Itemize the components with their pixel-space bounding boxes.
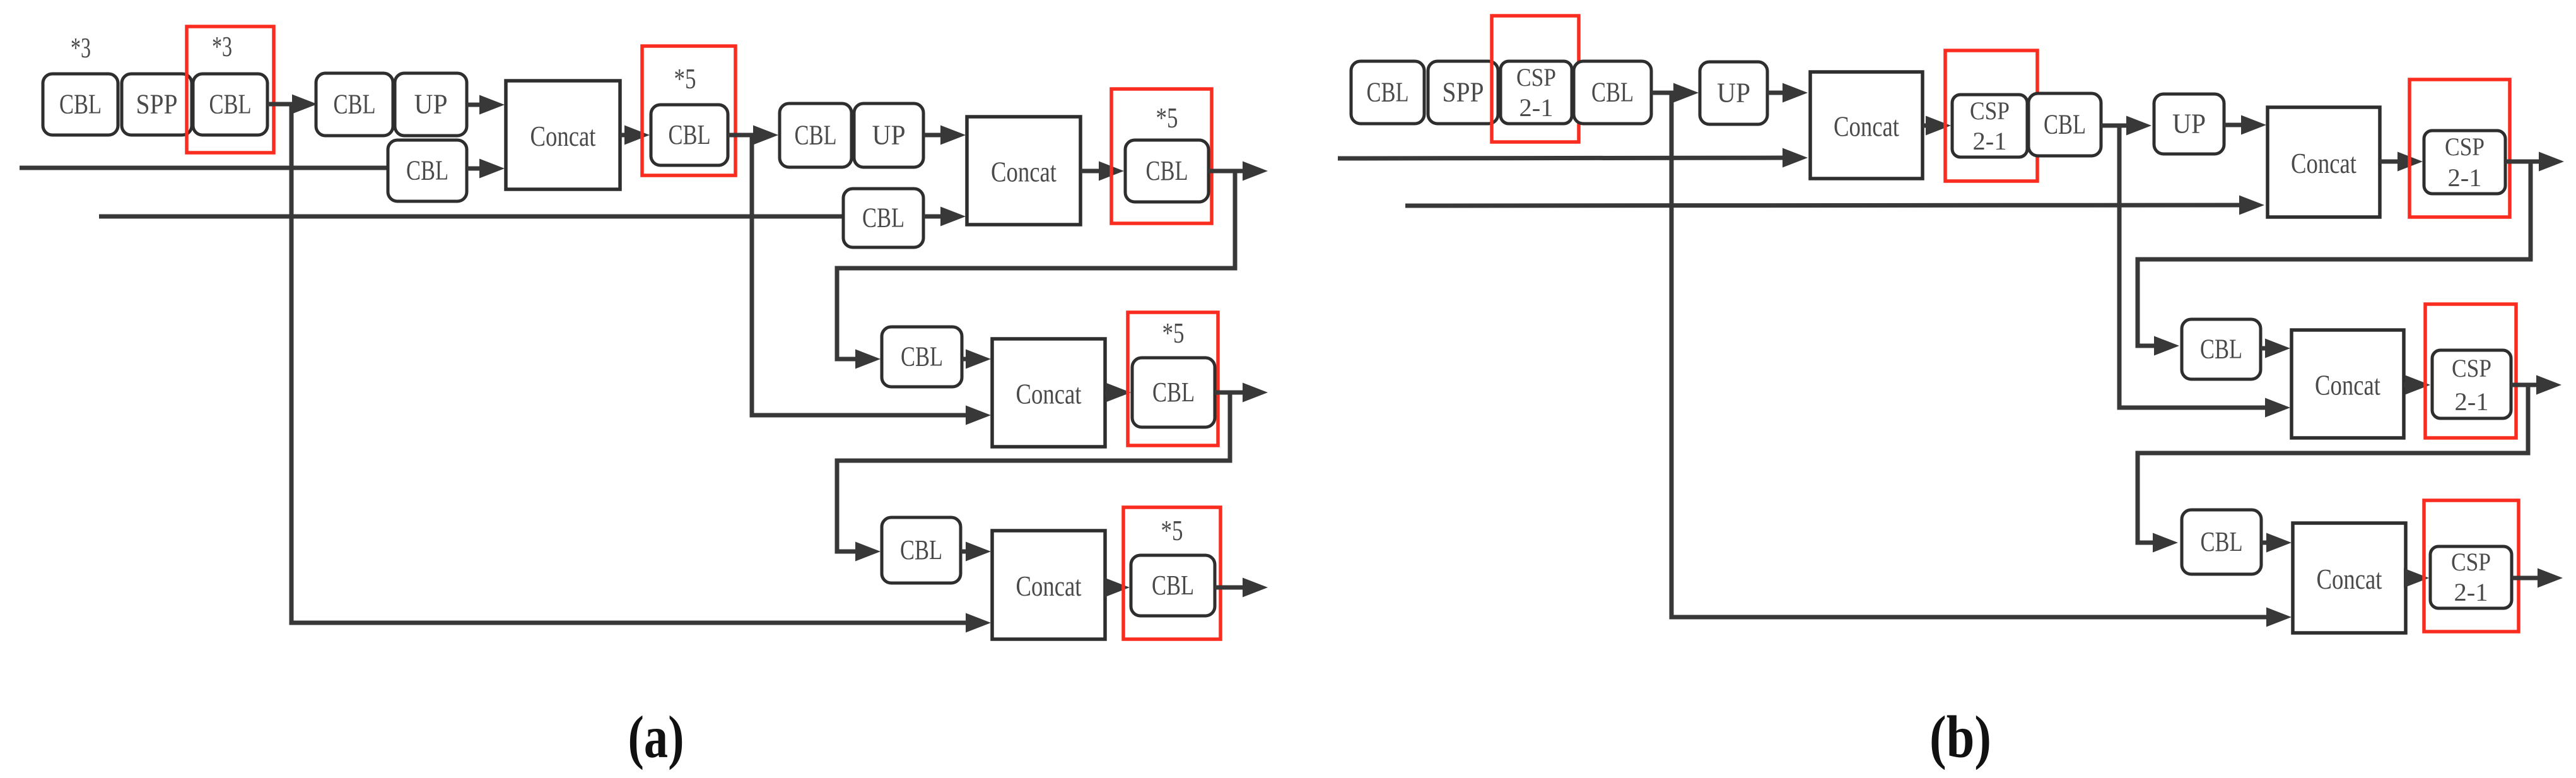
wire Concat b4 to CSP2-1 b5: [2406, 576, 2409, 581]
wire CBL a5 to CBL a6 with junction node: [728, 133, 758, 138]
svg-text:Concat: Concat: [530, 120, 596, 152]
wire CBL a7 to Concat a2: [923, 215, 946, 219]
wire CBL b2 to UP b1 with junction node: [1651, 91, 1678, 95]
wire branch row3 output down-left-down to CBL a11: [837, 392, 1230, 551]
svg-text:CBL: CBL: [2201, 526, 2243, 557]
red highlight rect b5 (CSP2-1): [2424, 500, 2519, 632]
wire input line P4 into CBL a4: [20, 166, 388, 170]
svg-text:CBL: CBL: [2044, 109, 2086, 140]
svg-text:Concat: Concat: [1016, 570, 1082, 602]
svg-text:(b): (b): [1929, 704, 1991, 770]
block UP a1: [395, 73, 467, 136]
wire CBL b5 to Concat b4: [2261, 541, 2271, 545]
red highlight rect a5 (*5 CBL): [1123, 507, 1221, 639]
wire branch row2 output down-left-down to CBL a9: [837, 171, 1235, 359]
wire branch row3 output down-left-down to CBL b5: [2138, 385, 2528, 543]
red highlight rect b1 (CSP2-1): [1492, 16, 1579, 142]
block Concat b1: [1810, 72, 1923, 179]
svg-text:CSP: CSP: [1516, 63, 1556, 91]
block SPP b (backbone): [1428, 61, 1498, 124]
block SPP a (backbone): [122, 74, 192, 135]
svg-text:CBL: CBL: [1591, 77, 1634, 108]
block CBL b1 (backbone): [1351, 61, 1424, 124]
svg-text:Concat: Concat: [991, 156, 1057, 188]
wire CBL a9 to Concat a3: [962, 357, 971, 362]
wire output head P3 from CSP2-1 b5: [2512, 576, 2543, 581]
wire UP a2 to Concat a2: [923, 133, 946, 138]
svg-text:UP: UP: [1717, 78, 1750, 109]
wire branch from node x462 down to Concat a4 bottom input: [291, 104, 971, 623]
svg-text:CBL: CBL: [669, 119, 711, 150]
svg-text:2-1: 2-1: [2454, 578, 2488, 606]
block CBL a10 (in red rect): [1132, 358, 1215, 427]
wire CBL a4 to Concat a1: [467, 167, 484, 171]
svg-text:2-1: 2-1: [1519, 93, 1554, 122]
wire CBL a2 to CBL a3 with junction node: [267, 102, 297, 107]
block CBL a4 (P4 lateral): [388, 140, 467, 201]
block CBL b3: [2029, 93, 2101, 156]
svg-text:CSP: CSP: [2445, 133, 2485, 161]
svg-text:Concat: Concat: [2317, 563, 2382, 595]
svg-text:UP: UP: [2172, 109, 2206, 139]
svg-text:CBL: CBL: [59, 89, 102, 120]
svg-text:UP: UP: [414, 89, 448, 120]
red highlight rect b2 (CSP2-1): [1945, 50, 2037, 181]
svg-text:CSP: CSP: [2452, 354, 2491, 382]
block Concat a1: [506, 81, 620, 189]
block CBL a11: [882, 517, 961, 583]
svg-text:(a): (a): [628, 704, 684, 770]
block CSP2-1 b4 (in red rect): [2432, 350, 2511, 418]
svg-text:CBL: CBL: [334, 89, 376, 120]
svg-text:Concat: Concat: [1834, 110, 1899, 143]
wire output head P4 from CSP2-1 b4: [2511, 383, 2541, 387]
red highlight rect b4 (CSP2-1): [2425, 304, 2516, 438]
wire branch row2 output down-left-down to CBL b4: [2138, 162, 2531, 346]
wire CBL b4 to Concat b3: [2261, 346, 2270, 351]
svg-text:CSP: CSP: [1970, 97, 2010, 125]
block CBL a6: [780, 103, 852, 167]
block Concat b2: [2268, 107, 2380, 217]
block Concat a2: [967, 117, 1080, 225]
block CSP2-1 b5 (in red rect): [2430, 546, 2512, 608]
block CBL a2 (in red rect): [193, 74, 267, 135]
wire Concat a2 to CBL a8: [1080, 169, 1104, 174]
block CBL b2: [1574, 61, 1651, 124]
svg-text:*3: *3: [71, 32, 91, 64]
block CSP2-1 b2 (in red rect): [1952, 95, 2027, 157]
wire UP b2 to Concat b2: [2224, 123, 2246, 127]
block UP b2: [2154, 94, 2224, 154]
block UP b1: [1700, 62, 1767, 124]
wire UP a1 to Concat a1: [467, 103, 484, 107]
svg-text:2-1: 2-1: [2448, 163, 2482, 192]
wire Concat b1 to CSP2-1 b2: [1923, 124, 1931, 128]
wire branch from node x2650 down to Concat b4 bottom input: [1671, 93, 2271, 617]
block CBL a3: [316, 73, 393, 136]
red highlight rect a3 (*5 CBL): [1111, 89, 1212, 223]
svg-text:CBL: CBL: [209, 89, 252, 120]
svg-text:*5: *5: [674, 62, 696, 95]
wire branch from node x1192 down to Concat a3 bottom input: [752, 135, 971, 415]
svg-text:CBL: CBL: [1146, 155, 1188, 186]
wire output head P4 from CBL a10: [1215, 391, 1248, 395]
block Concat a4: [992, 531, 1105, 639]
block CBL a1 (backbone): [43, 74, 118, 135]
svg-text:CBL: CBL: [1152, 377, 1195, 408]
block Concat a3: [992, 339, 1105, 447]
wire branch from node x3360 down to Concat b3 bottom input: [2119, 126, 2270, 408]
block CSP2-1 b3 (in red rect): [2424, 131, 2505, 194]
block CBL a8 (in red rect): [1125, 140, 1209, 202]
svg-text:Concat: Concat: [1016, 378, 1082, 410]
wire output head P5 from CSP2-1 b3: [2505, 160, 2544, 164]
svg-text:CBL: CBL: [1367, 77, 1409, 108]
block Concat b3: [2292, 330, 2404, 438]
wire input line P3 into Concat b2: [1405, 203, 2244, 208]
wire Concat a1 to CBL a5: [620, 133, 629, 138]
svg-text:SPP: SPP: [136, 89, 178, 120]
wire CBL b3 to UP b2 with junction node: [2101, 124, 2131, 128]
red highlight rect a1 (*3 CBL): [187, 27, 274, 153]
svg-text:CBL: CBL: [406, 155, 448, 186]
svg-text:CBL: CBL: [795, 120, 837, 151]
wire input line P3 into CBL a7: [99, 215, 843, 219]
block CSP2-1 b1 (in red rect): [1501, 61, 1572, 124]
red highlight rect a4 (*5 CBL): [1128, 312, 1218, 445]
svg-text:CBL: CBL: [901, 341, 943, 372]
wire CBL a11 to Concat a4: [961, 550, 971, 554]
svg-text:2-1: 2-1: [1973, 127, 2007, 155]
wire Concat b2 to CSP2-1 b3: [2380, 160, 2403, 164]
svg-text:CBL: CBL: [862, 203, 905, 233]
red highlight rect a2 (*5 CBL): [642, 46, 735, 175]
block CBL a12 (in red rect): [1131, 555, 1215, 616]
svg-text:*5: *5: [1162, 317, 1185, 349]
red highlight rect b3 (CSP2-1): [2409, 80, 2510, 217]
wire Concat a3 to CBL a10: [1105, 391, 1111, 395]
wire output head P5 from CBL a8: [1209, 169, 1248, 174]
svg-text:SPP: SPP: [1443, 77, 1484, 108]
svg-text:Concat: Concat: [2315, 369, 2380, 401]
block CBL a9: [882, 327, 962, 387]
block UP a2: [854, 103, 923, 167]
block CBL a5 (in red rect): [651, 105, 728, 165]
svg-text:CBL: CBL: [2200, 334, 2242, 365]
svg-text:Concat: Concat: [2291, 147, 2356, 179]
svg-text:CBL: CBL: [900, 534, 942, 565]
wire output head P3 from CBL a12: [1215, 586, 1248, 590]
svg-text:*3: *3: [212, 30, 232, 62]
block Concat b4: [2293, 523, 2406, 633]
block CBL b5: [2182, 510, 2261, 574]
wire input line P4 into Concat b1: [1338, 156, 1788, 161]
svg-text:UP: UP: [872, 120, 906, 151]
svg-text:CSP: CSP: [2451, 548, 2491, 576]
block CBL b4: [2182, 319, 2261, 379]
svg-text:2-1: 2-1: [2455, 387, 2489, 416]
svg-text:*5: *5: [1156, 102, 1178, 134]
svg-text:*5: *5: [1161, 514, 1183, 546]
svg-text:CBL: CBL: [1152, 570, 1194, 601]
wire Concat a4 to CBL a12: [1105, 586, 1109, 590]
wire Concat b3 to CSP2-1 b4: [2404, 383, 2410, 387]
block CBL a7 (P3 lateral): [843, 189, 923, 247]
wire UP b1 to Concat b1: [1767, 91, 1788, 95]
